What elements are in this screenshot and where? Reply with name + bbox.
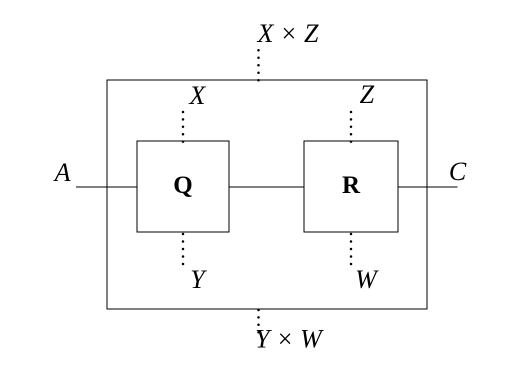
svg-text:C: C	[449, 157, 467, 186]
svg-text:X × Z: X × Z	[257, 19, 319, 48]
svg-text:A: A	[53, 158, 71, 187]
svg-text:W: W	[355, 265, 379, 294]
svg-text:X: X	[188, 81, 206, 110]
svg-text:Q: Q	[173, 172, 192, 199]
svg-text:R: R	[342, 172, 361, 199]
svg-text:Y × W: Y × W	[255, 325, 324, 354]
svg-text:Z: Z	[360, 80, 375, 109]
svg-text:Y: Y	[190, 265, 207, 294]
